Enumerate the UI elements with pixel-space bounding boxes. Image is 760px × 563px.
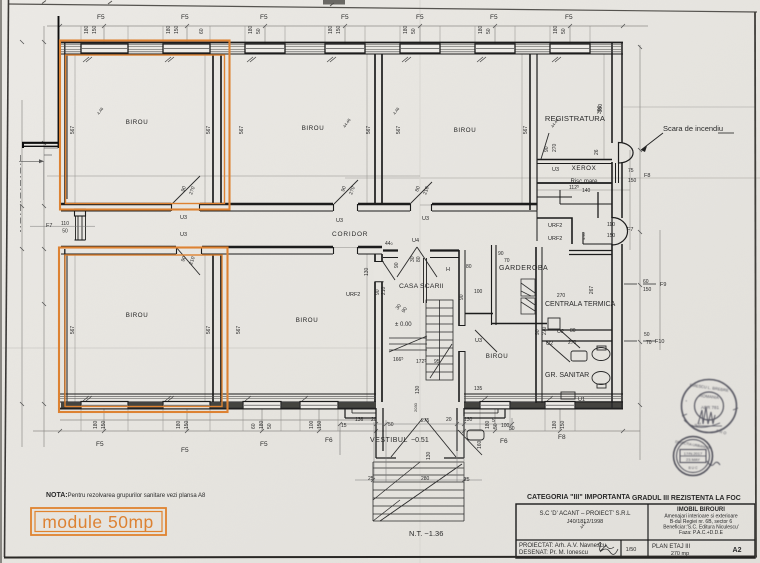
svg-text:270: 270 [557,293,566,299]
svg-text:F10: F10 [655,339,664,345]
svg-text:GARDEROBA: GARDEROBA [499,265,548,272]
svg-text:2030: 2030 [413,402,418,412]
svg-text:U3: U3 [552,167,559,173]
svg-text:BIROU: BIROU [486,353,509,360]
svg-text:IMOBIL BIROURI: IMOBIL BIROURI [677,507,725,513]
svg-text:135: 135 [474,386,483,392]
svg-text:100: 100 [474,289,483,295]
svg-text:BIROU: BIROU [454,127,477,134]
svg-text:module 50mp: module 50mp [42,512,154,532]
svg-text:567: 567 [523,126,529,135]
svg-text:PROIECTAT: Arh. A.V. Navnescu: PROIECTAT: Arh. A.V. Navnescu [519,543,606,549]
svg-text:CENTRALA TERMICA: CENTRALA TERMICA [545,301,616,308]
svg-text:100: 100 [309,420,315,429]
svg-text:S.C 'D' ACANT – PROIECT' S.R.L: S.C 'D' ACANT – PROIECT' S.R.L [539,511,631,517]
svg-text:F5: F5 [181,447,189,454]
svg-text:F5: F5 [565,14,573,21]
svg-text:B U C: B U C [688,466,698,470]
svg-text:567: 567 [70,126,76,135]
svg-text:URF2: URF2 [346,292,360,298]
svg-text:50: 50 [256,28,262,34]
svg-text:25: 25 [464,477,470,483]
svg-text:70: 70 [646,340,652,346]
svg-text:70: 70 [504,258,510,264]
svg-text:150: 150 [643,287,652,293]
svg-text:160: 160 [477,440,483,449]
svg-text:4.46: 4.46 [581,231,586,240]
svg-text:BIROU: BIROU [126,119,149,126]
svg-text:130: 130 [426,451,432,460]
svg-text:80: 80 [570,328,576,334]
svg-text:90: 90 [459,294,465,300]
svg-text:N.T. −1.36: N.T. −1.36 [409,529,443,538]
svg-text:20: 20 [446,417,452,423]
svg-text:F5: F5 [97,14,105,21]
svg-text:J40/1812/1998: J40/1812/1998 [567,519,603,525]
svg-text:180: 180 [84,25,90,34]
svg-text:150: 150 [101,420,107,429]
svg-text:210: 210 [381,286,387,295]
svg-text:20: 20 [371,417,377,423]
svg-text:60: 60 [251,423,257,429]
svg-text:150: 150 [628,178,637,184]
svg-text:5: 5 [492,418,495,424]
svg-text:URF2: URF2 [548,223,562,229]
svg-text:DESENAT: Pr. M. Ionescu: DESENAT: Pr. M. Ionescu [519,550,588,556]
svg-text:XEROX: XEROX [572,165,597,172]
svg-text:180: 180 [248,25,254,34]
svg-text:H: H [446,267,450,273]
svg-text:F5: F5 [96,441,104,448]
svg-text:APR 781: APR 781 [701,405,720,410]
svg-text:F8: F8 [644,173,650,179]
svg-text:150: 150 [92,25,98,34]
svg-text:U4: U4 [412,238,419,244]
svg-text:567: 567 [366,126,372,135]
svg-text:GRADUL III REZISTENTA LA FOC: GRADUL III REZISTENTA LA FOC [632,495,741,502]
svg-text:130: 130 [415,385,421,394]
svg-text:NOTA:Pentru rezolvarea grupuri: NOTA:Pentru rezolvarea grupurilor sanita… [46,492,206,499]
svg-text:U2: U2 [546,341,553,347]
svg-text:Scara de incendiu: Scara de incendiu [663,124,723,133]
svg-text:F8: F8 [558,434,566,441]
svg-text:F5: F5 [181,14,189,21]
svg-text:270: 270 [552,143,558,152]
svg-text:180: 180 [328,25,334,34]
svg-text:50: 50 [644,332,650,338]
svg-text:60: 60 [199,28,205,34]
svg-text:80: 80 [466,264,472,270]
svg-text:567: 567 [236,326,242,335]
svg-text:180: 180 [176,420,182,429]
svg-text:F5: F5 [260,441,268,448]
svg-text:130: 130 [364,267,370,276]
svg-text:F5: F5 [416,14,424,21]
svg-text:50: 50 [411,28,417,34]
svg-text:F5: F5 [341,14,349,21]
svg-text:U3: U3 [475,338,482,344]
svg-text:Faza: P.A.C.+D.D.E: Faza: P.A.C.+D.D.E [679,530,724,536]
svg-text:GR. SANITAR: GR. SANITAR [545,372,589,379]
svg-text:BIROU: BIROU [296,317,319,324]
svg-text:180: 180 [478,25,484,34]
svg-text:26: 26 [594,149,600,155]
svg-text:180: 180 [552,420,558,429]
svg-text:130: 130 [464,417,473,423]
svg-text:F9: F9 [660,282,666,288]
svg-text:F5: F5 [490,14,498,21]
svg-text:50: 50 [561,28,567,34]
svg-text:CASA SCARII: CASA SCARII [399,283,444,290]
svg-text:280: 280 [421,476,430,482]
svg-text:15: 15 [341,423,347,429]
svg-text:270: 270 [542,326,548,335]
svg-text:80: 80 [416,256,422,262]
svg-text:A2: A2 [733,547,742,554]
svg-text:150: 150 [174,25,180,34]
svg-text:± 0.00: ± 0.00 [395,322,412,328]
svg-text:−0.51: −0.51 [411,437,429,444]
svg-text:50: 50 [509,426,515,432]
svg-text:60: 60 [643,279,649,285]
svg-text:1/50: 1/50 [626,547,637,553]
svg-text:U3: U3 [180,215,187,221]
svg-text:90: 90 [394,262,400,268]
svg-text:180: 180 [166,25,172,34]
svg-text:50: 50 [62,229,68,235]
svg-text:150: 150 [560,420,566,429]
svg-text:110: 110 [607,222,615,228]
svg-text:50: 50 [493,423,499,429]
svg-text:23.MAY: 23.MAY [686,457,700,462]
svg-text:180: 180 [259,420,265,429]
svg-text:BIROU: BIROU [302,125,325,132]
svg-text:567: 567 [206,126,212,135]
svg-text:140: 140 [582,188,591,194]
svg-text:50: 50 [388,422,394,428]
svg-text:150: 150 [317,420,323,429]
svg-text:BIROU: BIROU [126,312,149,319]
svg-text:95: 95 [434,359,440,365]
svg-text:U3: U3 [336,218,343,224]
svg-text:180: 180 [403,25,409,34]
svg-text:180: 180 [553,25,559,34]
svg-text:136: 136 [355,417,364,423]
svg-text:75: 75 [628,168,634,174]
svg-text:25: 25 [368,476,374,482]
svg-text:567: 567 [206,326,212,335]
svg-text:CATEGORIA "III" IMPORTANTA: CATEGORIA "III" IMPORTANTA [527,494,630,501]
svg-text:50: 50 [486,28,492,34]
svg-text:567: 567 [396,126,402,135]
svg-text:150: 150 [184,420,190,429]
svg-text:U3: U3 [422,216,429,222]
svg-text:U2: U2 [557,329,564,335]
svg-text:275: 275 [421,418,430,424]
svg-text:267: 267 [589,286,595,295]
svg-text:567: 567 [239,126,245,135]
svg-text:50: 50 [267,423,273,429]
svg-text:270: 270 [568,340,577,346]
svg-text:PLAN ETAJ III: PLAN ETAJ III [652,544,691,550]
svg-text:567: 567 [70,326,76,335]
svg-text:F6: F6 [325,437,333,444]
svg-text:URF2: URF2 [548,236,562,242]
svg-text:90: 90 [498,251,504,257]
svg-text:150: 150 [607,233,616,239]
svg-text:F7: F7 [627,227,633,233]
svg-text:F5: F5 [260,14,268,21]
svg-text:F6: F6 [500,438,508,445]
svg-text:CORIDOR: CORIDOR [332,231,368,238]
svg-text:180: 180 [485,420,491,429]
svg-text:180: 180 [93,420,99,429]
svg-text:U3: U3 [180,232,187,238]
svg-text:390: 390 [597,105,603,114]
svg-text:110: 110 [61,221,69,227]
svg-text:90: 90 [544,146,550,152]
svg-text:U1: U1 [578,397,585,403]
svg-text:90: 90 [535,329,541,335]
svg-text:F7: F7 [46,223,52,229]
svg-text:17/N.2017: 17/N.2017 [684,451,703,456]
svg-text:VESTIBUL: VESTIBUL [370,437,408,444]
svg-text:150: 150 [336,25,342,34]
